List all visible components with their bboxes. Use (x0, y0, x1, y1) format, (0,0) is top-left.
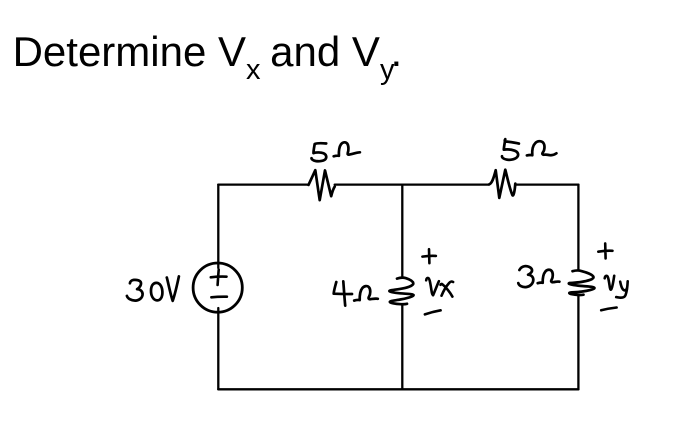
wire left lower (217, 308, 219, 389)
wire right upper (577, 185, 579, 270)
wire right lower (577, 296, 579, 389)
label 3ohm: omega (538, 270, 560, 283)
label 5ohm left: digit 5 (311, 143, 326, 161)
label 4ohm: omega (354, 286, 378, 301)
wire top-left segment (218, 183, 308, 185)
wire top-middle segment (335, 183, 489, 185)
label 30V: letter V (167, 276, 179, 300)
label 5ohm right: digit 5 (502, 139, 519, 160)
label 4ohm: digit 4 (334, 282, 352, 294)
wire left upper (217, 185, 219, 268)
label 5ohm left: omega (334, 142, 360, 156)
label plus of Vy (598, 243, 612, 258)
label minus of Vx (425, 310, 441, 314)
label minus of Vy (601, 308, 616, 311)
resistor R4 3ohm spring (569, 270, 595, 295)
plus sign inside source (211, 270, 227, 285)
label Vy: letter V (605, 276, 615, 290)
wire top-right segment (515, 183, 578, 185)
wire bottom (218, 388, 578, 390)
title text (13, 28, 403, 76)
label Vx: letter V (426, 278, 439, 295)
resistor R1 5ohm zigzag (309, 170, 335, 200)
label plus of Vx (422, 249, 436, 263)
label Vx: letter x (441, 282, 454, 297)
resistor R2 5ohm zigzag (489, 170, 515, 198)
label Vy: letter y (616, 281, 628, 297)
label 3ohm: digit 3 (518, 266, 533, 287)
label 30V: digit 3 (127, 280, 143, 301)
wire middle upper (401, 185, 403, 278)
label 30V: digit 0 (151, 283, 162, 301)
resistor R3 4ohm spring (389, 278, 413, 305)
label 5ohm right: omega (527, 141, 557, 155)
minus sign inside source (211, 295, 227, 298)
wire middle lower (401, 305, 403, 389)
voltage source V1 circle (193, 263, 242, 312)
